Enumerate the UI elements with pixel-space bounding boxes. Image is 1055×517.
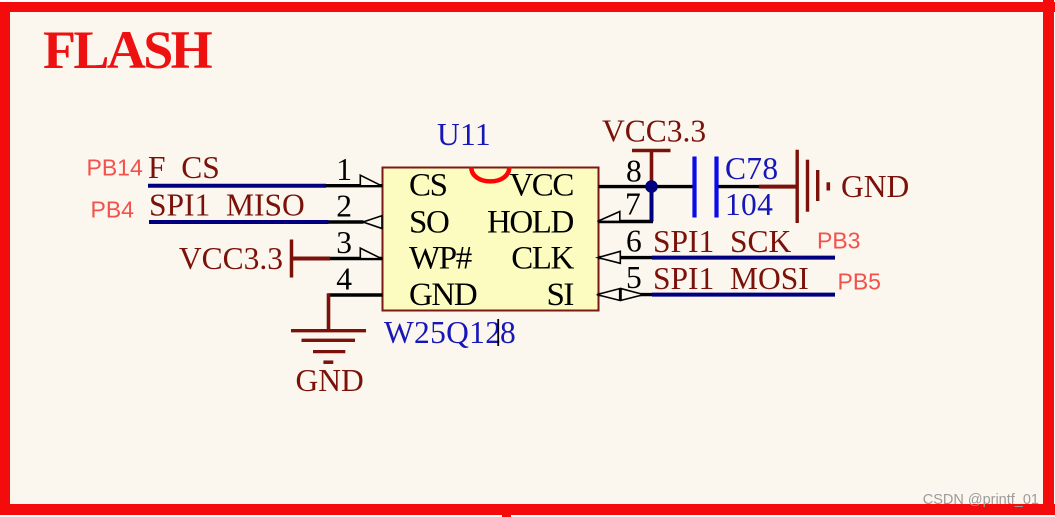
svg-text:GND: GND [409, 277, 477, 313]
port label PB4 [91, 197, 135, 223]
svg-text:4: 4 [336, 262, 352, 297]
ground GND right [797, 150, 909, 223]
svg-text:8: 8 [500, 315, 516, 350]
svg-text:PB5: PB5 [838, 269, 881, 295]
svg-text:2: 2 [336, 189, 352, 224]
wire net SPI1_MISO [149, 220, 329, 224]
power port VCC3.3 left [179, 240, 330, 278]
svg-text:CS: CS [409, 168, 447, 204]
svg-text:VCC: VCC [509, 168, 573, 204]
pin name VCC [509, 168, 573, 204]
pin name HOLD [487, 205, 574, 241]
wire cap to ground [719, 185, 798, 188]
wire to ground [327, 293, 331, 330]
svg-text:SO: SO [409, 205, 449, 241]
svg-text:VCC3.3: VCC3.3 [602, 114, 706, 149]
svg-text:F CS: F CS [148, 150, 220, 185]
value W25Q128 [384, 315, 516, 350]
svg-text:SPI1 MISO: SPI1 MISO [149, 188, 305, 223]
svg-text:SPI1 SCK: SPI1 SCK [653, 224, 792, 259]
net label F_CS [148, 150, 220, 185]
svg-text:W25Q12: W25Q12 [384, 315, 501, 350]
wire net SPI1_MOSI [652, 293, 835, 297]
svg-text:WP#: WP# [409, 241, 472, 277]
pin name WP# [409, 241, 472, 277]
net label SPI1_MOSI [653, 261, 809, 296]
port label PB14 [87, 155, 143, 181]
svg-text:PB3: PB3 [817, 228, 860, 254]
power port VCC3.3 right [602, 114, 706, 187]
pin name SI [546, 277, 573, 313]
svg-text:8: 8 [626, 154, 642, 189]
pin 7 lead [598, 187, 654, 222]
pin name GND [409, 277, 477, 313]
pin 1 lead [326, 152, 383, 187]
svg-text:7: 7 [625, 187, 641, 222]
svg-text:SPI1 MOSI: SPI1 MOSI [653, 261, 809, 296]
svg-text:1: 1 [336, 152, 352, 187]
svg-text:3: 3 [336, 225, 352, 260]
pin 5 lead [597, 260, 653, 300]
junction dot [645, 180, 658, 193]
svg-text:C78: C78 [725, 151, 778, 186]
pin name CS [409, 168, 447, 204]
svg-text:GND: GND [296, 363, 364, 398]
svg-text:HOLD: HOLD [487, 205, 574, 241]
capacitor C78 [695, 151, 779, 222]
notch arc [471, 167, 509, 181]
svg-text:6: 6 [626, 224, 642, 259]
port label PB3 [817, 228, 860, 254]
svg-text:VCC3.3: VCC3.3 [179, 241, 283, 276]
svg-text:CLK: CLK [511, 241, 574, 277]
pin name SO [409, 205, 449, 241]
pin 6 lead [598, 224, 653, 264]
svg-text:CSDN @printf_01: CSDN @printf_01 [923, 492, 1039, 508]
ground GND left [291, 331, 366, 398]
svg-text:U11: U11 [437, 117, 491, 152]
pin name CLK [511, 241, 574, 277]
pin 3 lead [330, 225, 383, 260]
net label SPI1_SCK [653, 224, 792, 259]
svg-text:PB4: PB4 [91, 197, 135, 223]
svg-text:104: 104 [725, 187, 773, 222]
pin 8 lead [599, 154, 696, 189]
pin 4 lead [329, 262, 383, 297]
IC U1 body [383, 167, 599, 310]
net label SPI1_MISO [149, 188, 305, 223]
wire net F_CS [148, 184, 326, 188]
svg-text:GND: GND [841, 169, 909, 204]
port label PB5 [838, 269, 881, 295]
designator U11 [437, 117, 491, 152]
watermark [923, 492, 1039, 508]
title FLASH [43, 20, 213, 80]
svg-text:FLASH: FLASH [43, 20, 213, 80]
svg-text:SI: SI [546, 277, 573, 313]
pin 2 lead [329, 189, 383, 229]
wire pin7 to junction [650, 187, 654, 222]
svg-text:PB14: PB14 [87, 155, 143, 181]
wire net SPI1_SCK [652, 256, 835, 260]
